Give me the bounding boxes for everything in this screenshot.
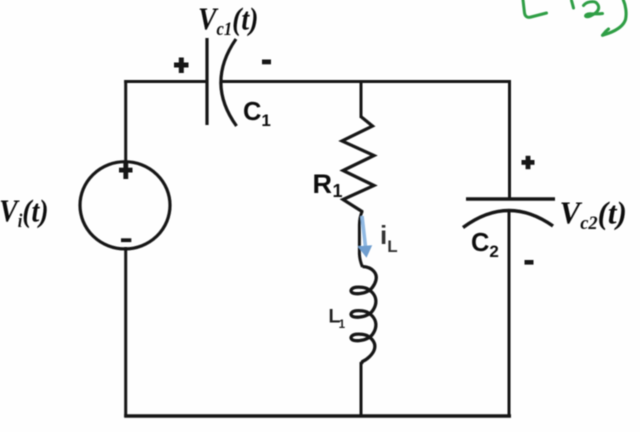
wire right vertical lower (508, 212, 511, 417)
plus sign of C1 (174, 58, 189, 74)
wire top-right segment (222, 80, 511, 83)
label iL (380, 220, 398, 256)
green annotation squiggle (584, 2, 603, 17)
svg-text:Vi(t): Vi(t) (0, 194, 49, 232)
wire right vertical upper (508, 80, 511, 198)
wire left vertical lower (124, 247, 127, 417)
label C2 (471, 229, 499, 261)
label R1 (313, 169, 343, 201)
svg-text:R1: R1 (313, 169, 343, 201)
wire between resistor and inductor (359, 211, 362, 267)
green annotation right bracket (603, 0, 627, 35)
label V_i(t) (0, 194, 49, 232)
svg-text:L1: L1 (329, 307, 346, 332)
svg-text:iL: iL (380, 220, 398, 256)
label C1 (243, 98, 271, 130)
capacitor C1 (207, 38, 237, 126)
svg-text:Vc2(t): Vc2(t) (560, 195, 627, 234)
green annotation left bracket (523, 0, 547, 17)
wire middle bottom (360, 362, 363, 417)
plus sign of C2 (522, 156, 535, 169)
green annotation tick (572, 1, 574, 9)
plus sign inside source (119, 163, 133, 180)
wire left vertical upper (124, 80, 127, 163)
resistor R1 (342, 117, 374, 212)
minus sign inside source (121, 238, 131, 242)
capacitor C2 (463, 199, 555, 228)
wire bottom (124, 414, 511, 417)
voltage source Vi (80, 162, 170, 249)
minus sign of C2 (525, 260, 534, 265)
svg-text:C1: C1 (243, 98, 271, 130)
minus sign of C1 (262, 60, 271, 65)
wire top-left segment (124, 80, 206, 83)
svg-text:C2: C2 (471, 229, 499, 261)
label L1 (329, 307, 346, 332)
label V_c2(t) (560, 195, 627, 234)
current arrow iL (358, 216, 373, 258)
label V_c1(t) (198, 2, 258, 40)
wire middle top (360, 80, 363, 118)
inductor L1 (351, 267, 376, 364)
svg-text:Vc1(t): Vc1(t) (198, 2, 258, 40)
